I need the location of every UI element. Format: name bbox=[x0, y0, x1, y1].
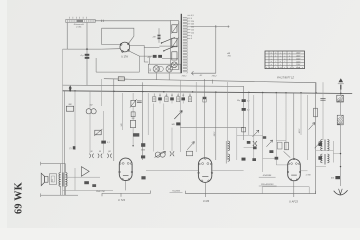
trimmer coil arrow bbox=[187, 142, 194, 150]
svg-text:30: 30 bbox=[91, 151, 93, 153]
coupling capacitors row bbox=[89, 154, 93, 158]
svg-text:125: 125 bbox=[191, 30, 194, 32]
svg-text:410: 410 bbox=[331, 177, 334, 180]
svg-text:40: 40 bbox=[165, 94, 167, 97]
wire x227.5 bbox=[227, 82, 229, 160]
svg-text:+: + bbox=[275, 64, 276, 66]
IF coils left bbox=[228, 141, 230, 143]
coupling caps 3 bbox=[170, 151, 174, 156]
svg-text:U 723: U 723 bbox=[118, 198, 125, 202]
svg-text:30: 30 bbox=[99, 151, 101, 153]
tick on B1 x212 bbox=[212, 80, 214, 84]
svg-text:780.2: 780.2 bbox=[211, 76, 217, 78]
svg-text:U M3: U M3 bbox=[203, 199, 210, 203]
svg-text:400.2: 400.2 bbox=[298, 129, 301, 134]
wire x262.6 bbox=[262, 93, 264, 173]
svg-text:6: 6 bbox=[191, 35, 192, 37]
capacitor chain x243.5 bbox=[243, 93, 245, 99]
capacitor x322 bbox=[320, 98, 325, 100]
wire x196 bbox=[195, 82, 197, 152]
capacitor right bbox=[137, 101, 142, 103]
component row y97 bbox=[153, 97, 156, 102]
switch contact a bbox=[162, 37, 175, 42]
wire x236.8 bbox=[236, 128, 238, 160]
transformer core bbox=[180, 14, 182, 73]
wire rail 2 bbox=[186, 191, 316, 194]
capacitor blob rm3 bbox=[263, 136, 266, 139]
svg-text:o: o bbox=[289, 58, 290, 60]
wire x248.8 bbox=[248, 92, 250, 135]
wire x64.5 bbox=[64, 91, 66, 195]
IF transformer right bbox=[321, 140, 323, 142]
svg-text:d. Wz.: d. Wz. bbox=[76, 27, 82, 29]
wire x133 bbox=[132, 93, 134, 100]
tube U723 bbox=[119, 158, 132, 180]
svg-text:240: 240 bbox=[191, 24, 194, 26]
variable resistor 1 bbox=[131, 100, 136, 106]
svg-text:+: + bbox=[280, 55, 281, 57]
wire x276.3 bbox=[275, 93, 277, 165]
wire y73 arm bbox=[192, 71, 216, 75]
potentiometer bbox=[95, 130, 101, 135]
svg-text:25: 25 bbox=[181, 95, 184, 97]
wire speaker vert bbox=[56, 174, 58, 185]
wire x153.5 drop bbox=[153, 103, 155, 151]
wire y140 connect bbox=[276, 140, 286, 142]
resistor small (7) bbox=[73, 146, 76, 149]
fuse lamp bbox=[171, 62, 177, 68]
wire x75 bbox=[74, 91, 76, 150]
svg-text:50: 50 bbox=[171, 95, 173, 97]
svg-text:50: 50 bbox=[159, 95, 161, 97]
svg-text:o: o bbox=[280, 61, 281, 63]
wire x180.5 bbox=[179, 80, 181, 122]
rectifier tube UZW bbox=[120, 42, 130, 52]
speaker inner box bbox=[49, 174, 56, 185]
electrolytic capacitor 1uF bbox=[86, 23, 88, 86]
switch arrows right bbox=[309, 123, 315, 130]
wire x315.6 bbox=[315, 83, 317, 194]
svg-text:+: + bbox=[275, 61, 276, 63]
svg-text:280.2: 280.2 bbox=[214, 132, 216, 138]
capacitor left b bbox=[141, 176, 145, 179]
svg-text:110: 110 bbox=[191, 32, 194, 34]
wire x253.8 bbox=[253, 95, 255, 160]
resistor vert near tube3 bbox=[285, 142, 289, 150]
transformer T1 primary box bbox=[170, 20, 178, 69]
triangle pickup bbox=[81, 167, 89, 177]
wire x101.7 bbox=[101, 79, 103, 106]
capacitor left a bbox=[141, 155, 145, 158]
mains voltage selector strip bbox=[66, 19, 95, 22]
junction dots B3 bbox=[69, 90, 71, 92]
svg-text:0,1: 0,1 bbox=[177, 95, 179, 97]
wire x301 bbox=[300, 93, 302, 135]
svg-text:0,1: 0,1 bbox=[247, 110, 250, 112]
primary tap resistor 1 bbox=[172, 25, 177, 33]
wire speaker bottom bbox=[41, 187, 78, 198]
svg-text:U ZW: U ZW bbox=[121, 55, 128, 59]
wire mains left bbox=[66, 23, 68, 50]
svg-text:–: – bbox=[289, 64, 290, 66]
svg-text:+: + bbox=[284, 55, 285, 57]
wire loop above rail bbox=[262, 187, 309, 194]
output transformer bbox=[59, 173, 61, 175]
coil hatch right2 bbox=[337, 115, 343, 125]
wire x163.8 drop bbox=[163, 103, 165, 150]
ground chevron bbox=[334, 190, 348, 195]
antenna bbox=[339, 78, 344, 82]
wire mains top bbox=[95, 20, 170, 22]
resistor small box x133 bbox=[131, 112, 135, 117]
svg-text:PH 27/9977 1Z: PH 27/9977 1Z bbox=[277, 76, 294, 79]
capacitor 343 bbox=[176, 122, 180, 125]
svg-text:69 WK: 69 WK bbox=[13, 182, 24, 214]
svg-text:o: o bbox=[284, 58, 285, 60]
svg-text:(7): (7) bbox=[69, 148, 72, 150]
svg-text:x: x bbox=[271, 55, 272, 57]
wire tube top-right to switch bbox=[130, 46, 160, 48]
capacitor blob rm2 bbox=[275, 157, 279, 160]
capacitor dark right bbox=[335, 176, 340, 179]
wire anode loop bbox=[102, 28, 134, 44]
wire x204.5 bbox=[204, 79, 206, 159]
primary tap resistor 2 bbox=[172, 38, 177, 47]
switch contact b bbox=[164, 46, 175, 50]
wire tube3 right bbox=[300, 170, 307, 172]
svg-text:–: – bbox=[280, 58, 281, 60]
svg-text:o: o bbox=[271, 61, 272, 63]
wire x340.5 bbox=[340, 102, 342, 115]
capacitor 140 bbox=[101, 141, 106, 144]
svg-text:7: 7 bbox=[154, 95, 155, 97]
svg-text:220: 220 bbox=[191, 21, 194, 23]
svg-text:+: + bbox=[271, 58, 272, 60]
wire cathode rail 1 bbox=[102, 191, 150, 197]
svg-text:o: o bbox=[289, 55, 290, 57]
resistor box bbox=[186, 151, 192, 156]
IF cap blob upper bbox=[318, 142, 322, 146]
mains plug ticks bbox=[69, 17, 71, 19]
svg-text:4.1: 4.1 bbox=[200, 74, 203, 77]
wire y152 tube3 right bbox=[294, 151, 308, 153]
wire x215.8 lower bbox=[215, 92, 217, 160]
voltage table bbox=[265, 51, 305, 69]
wire left border bbox=[62, 49, 64, 195]
resistor 180 bbox=[130, 120, 135, 127]
wire y170 right of tube2 bbox=[212, 170, 243, 172]
wire x323 bbox=[322, 82, 324, 140]
dial lamp L1 bbox=[153, 66, 159, 72]
capacitor 101 bbox=[100, 140, 102, 142]
wire y190 bbox=[63, 189, 113, 191]
capacitor blob rm1 bbox=[253, 146, 257, 149]
dial lamp L1b bbox=[158, 66, 163, 71]
wire right edge tick bbox=[351, 92, 353, 96]
wire y170 left of tube2 bbox=[146, 169, 198, 171]
wire y147 connect bbox=[244, 146, 254, 148]
wire x293.8 bbox=[293, 93, 295, 159]
svg-text:50p: 50p bbox=[237, 100, 240, 102]
wire IF right vertical bbox=[332, 141, 334, 163]
wire y135.6 bbox=[237, 135, 263, 137]
svg-text:6,3: 6,3 bbox=[191, 15, 194, 17]
svg-text:x: x bbox=[271, 64, 272, 66]
trimmer arrow bbox=[174, 111, 182, 119]
speaker bbox=[41, 173, 44, 185]
wire y49 horizontal bbox=[63, 48, 102, 50]
wire x216 drop bbox=[215, 27, 217, 74]
cluster y130-140 bbox=[247, 141, 251, 144]
resistor x204 bbox=[203, 97, 206, 99]
svg-text:782.1: 782.1 bbox=[181, 75, 186, 77]
IF cap blob lower bbox=[318, 156, 322, 160]
svg-text:0,1: 0,1 bbox=[107, 142, 110, 144]
dial lamp L2 bbox=[166, 66, 172, 72]
primary tap resistor 3 bbox=[172, 52, 177, 60]
svg-text:M 42585: M 42585 bbox=[263, 174, 272, 177]
wire x307.5 bbox=[307, 95, 309, 160]
svg-text:150: 150 bbox=[191, 27, 194, 29]
tube UAF23 bbox=[288, 159, 301, 181]
svg-text:0,1: 0,1 bbox=[247, 101, 250, 103]
wire x172 drop bbox=[171, 128, 173, 151]
variable capacitor pair 2 bbox=[155, 152, 160, 157]
wire x142.6 bbox=[142, 82, 144, 160]
wire HT tap bbox=[190, 26, 229, 28]
svg-text:U AF23: U AF23 bbox=[289, 199, 298, 203]
capacitor blob bl2 bbox=[252, 158, 256, 161]
svg-text:(50: (50 bbox=[108, 151, 111, 153]
variable capacitor pair bbox=[86, 109, 91, 114]
capacitor hatched bbox=[133, 133, 139, 136]
tube UM3 bbox=[198, 158, 211, 183]
lamp stubs bbox=[155, 73, 157, 79]
svg-text:+: + bbox=[280, 64, 281, 66]
svg-text:4: 4 bbox=[191, 38, 192, 40]
svg-text:50: 50 bbox=[189, 95, 191, 97]
wire bus B3 bbox=[63, 91, 353, 94]
wire y158 connect bbox=[263, 158, 277, 160]
svg-text:PHB 752: PHB 752 bbox=[96, 191, 106, 193]
resistor vert x315 bbox=[314, 108, 318, 117]
dial lamp box bbox=[148, 64, 180, 73]
svg-text:352: 352 bbox=[150, 69, 152, 72]
wire y165 to tube3 bbox=[276, 164, 287, 166]
coil boxed right bbox=[337, 95, 344, 102]
resistor box on x243 bbox=[242, 127, 246, 132]
capacitor heater bypass bbox=[153, 55, 157, 58]
svg-text:140: 140 bbox=[120, 124, 123, 127]
capacitor lower bbox=[84, 181, 89, 184]
svg-text:PGL42/2230: PGL42/2230 bbox=[261, 183, 274, 186]
trimmer arrows IF bbox=[315, 141, 322, 148]
wire x122.5 bbox=[122, 93, 124, 130]
transformer secondary winding bbox=[183, 17, 187, 19]
svg-text:x: x bbox=[275, 55, 276, 57]
wire x286 bbox=[285, 93, 287, 150]
rectifier feed arrow bbox=[69, 86, 71, 91]
svg-text:4: 4 bbox=[191, 18, 192, 20]
wire into tube lower bbox=[102, 48, 121, 50]
capacitor blob bl1 bbox=[242, 158, 246, 161]
wire heater run bbox=[129, 51, 153, 56]
wire x148 bbox=[147, 93, 149, 135]
wire x113.8 bbox=[113, 79, 115, 161]
wire switch feeds bbox=[159, 45, 178, 47]
wire speaker top bbox=[41, 162, 66, 173]
resistor on B1 bbox=[118, 77, 124, 81]
small components near tube1 bbox=[141, 143, 145, 147]
transformer taps bbox=[187, 14, 190, 16]
svg-text:+: + bbox=[284, 61, 285, 63]
svg-text:1.780: 1.780 bbox=[306, 174, 312, 176]
wire y177 bbox=[63, 176, 100, 178]
wire bus B2 bbox=[63, 85, 244, 93]
svg-text:5000: 5000 bbox=[141, 150, 145, 152]
svg-text:302: 302 bbox=[52, 179, 54, 182]
wire lamp feed bbox=[149, 58, 151, 64]
wire y127.5 bbox=[180, 127, 244, 129]
small caps cluster right bbox=[266, 140, 272, 147]
resistor 380 bbox=[66, 106, 73, 111]
wire bus B1 bbox=[104, 79, 316, 94]
capacitor 247 bbox=[158, 35, 161, 37]
wire IF connectors bbox=[316, 150, 334, 152]
